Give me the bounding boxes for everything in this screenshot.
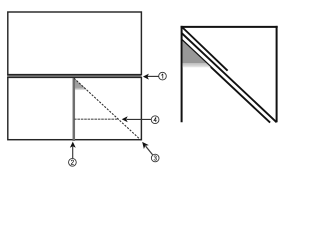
diagonal cut path line (dashed)	[74, 78, 141, 140]
arrow 1 shaft	[147, 75, 159, 77]
vertical gray score line	[73, 78, 76, 141]
enlarged chamfer light strip	[183, 63, 211, 67]
label 3 circle	[151, 154, 159, 162]
label 4 digit	[154, 118, 157, 122]
arrow 4 shaft	[127, 118, 152, 120]
label 3 digit	[154, 156, 156, 160]
arrow 3 head	[142, 142, 149, 149]
arrow 1 head	[143, 74, 149, 80]
label 1 digit	[162, 74, 163, 78]
enlarged gray chamfer triangle	[183, 41, 207, 63]
cut line upper stroke	[7, 74, 141, 76]
cut line gray core	[7, 75, 141, 77]
gray wedge (left figure chamfer)	[74, 78, 88, 90]
label 2 circle	[69, 158, 77, 166]
enlarged kerf diagonal (full, ends at right edge bottom)	[182, 33, 277, 122]
lower board (left figure bottom rectangle)	[8, 77, 142, 139]
enlarged lower piece cut face diagonal	[182, 40, 271, 123]
label 2 digit	[71, 160, 73, 164]
upper board (left figure top rectangle)	[8, 12, 142, 75]
enlarged view right edge	[276, 26, 278, 122]
arrow 2 head	[70, 142, 76, 148]
label 4 circle	[151, 116, 159, 124]
thin horizontal reference line	[74, 118, 119, 120]
enlarged upper piece cut face (short diagonal from corner)	[182, 27, 228, 71]
enlarged view top edge	[181, 26, 278, 28]
arrow 2 shaft	[72, 146, 74, 158]
enlarged view left edge	[181, 26, 183, 122]
cut line lower stroke	[7, 76, 141, 78]
arrow 4 head	[122, 116, 128, 122]
label 1 circle	[159, 72, 167, 80]
arrow 3 shaft	[146, 146, 153, 155]
